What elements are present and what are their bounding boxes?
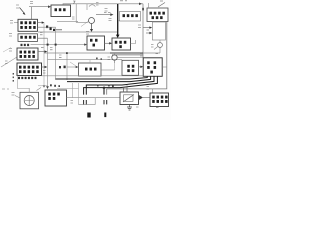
leader to label above speaker <box>37 88 42 91</box>
block 64 middle <box>79 63 102 76</box>
wire block 64 out right <box>101 69 115 71</box>
wires into block 94 top <box>124 86 128 93</box>
label 7 <box>73 1 76 4</box>
label 87 <box>147 29 150 31</box>
speaker block 18 <box>20 92 39 109</box>
wire vertical x44 <box>43 23 45 86</box>
label 96 <box>156 107 159 109</box>
wire y76 long under control <box>42 75 144 77</box>
wire arrow to IF line <box>96 14 111 16</box>
wire branch down at 87 <box>86 4 88 10</box>
wire y85.8 short <box>38 85 48 87</box>
label 30 <box>16 5 19 8</box>
block 7 oscillator <box>51 5 71 17</box>
block 16 <box>17 48 38 60</box>
caption glyphs under block 17 <box>18 77 20 79</box>
antenna input diagonal <box>1 57 17 67</box>
dotted line left of block 17 <box>13 73 14 82</box>
label 19 <box>120 0 127 2</box>
wire x67 vertical <box>66 53 68 80</box>
bus pin 1 <box>56 76 148 79</box>
wire y21 from delay <box>57 21 78 22</box>
block 96 power <box>150 93 169 107</box>
wire x95.2 stub <box>94 98 96 105</box>
bus pin 2 <box>67 76 151 81</box>
label 95 <box>147 87 150 90</box>
block 10 top right <box>147 8 168 22</box>
connector bars group B below line <box>104 100 107 104</box>
wire stub above block 10 <box>148 3 150 8</box>
wire right vertical x143 <box>142 4 144 58</box>
bus label marks <box>97 85 114 87</box>
wire amp out long <box>67 97 121 99</box>
wire thick vertical <box>117 4 119 35</box>
wire decoder out hook <box>131 40 136 44</box>
wire node 21 vertical to tuner <box>31 7 33 20</box>
label 24 <box>109 19 112 21</box>
wire y29.8 stub <box>56 29 63 31</box>
label 85 <box>138 25 141 28</box>
wire arrow into block 64 <box>67 66 76 68</box>
connector bars group A below line <box>84 100 87 104</box>
wire into mixer <box>76 4 88 23</box>
label 86 with leader <box>158 3 165 8</box>
label 60 glyphs under block13 <box>21 44 23 46</box>
wire y20.5 right of vertical <box>118 20 137 22</box>
node circle below block 87 <box>158 43 163 48</box>
connector bar B left <box>103 88 105 95</box>
mixer circle node <box>89 18 95 24</box>
block 13 <box>18 34 38 42</box>
right edge vertical loop <box>107 22 167 95</box>
label 26 <box>86 32 89 35</box>
label 40 cluster <box>46 26 55 32</box>
block 26 demod <box>87 36 105 50</box>
block 12 tuner <box>18 19 38 31</box>
wire demod to decoder <box>105 42 111 44</box>
wire y44.3 long to demod <box>31 44 86 46</box>
block 9 text box <box>120 12 141 22</box>
label 76 <box>140 54 143 57</box>
ground symbol <box>129 105 131 108</box>
wire tuner out 1 <box>38 22 43 24</box>
label 64 <box>43 71 46 74</box>
wire horizontal y32 <box>38 31 117 33</box>
block 19 audio amp <box>45 90 67 106</box>
wire stub into block 64 top <box>89 60 91 63</box>
label 8 <box>96 3 99 6</box>
label 13 <box>9 34 12 37</box>
label 21 <box>30 2 33 4</box>
small dashes near IF <box>104 12 111 14</box>
wire into block 7 <box>29 6 49 8</box>
bus pin 4 <box>84 76 158 94</box>
block 27 decoder <box>112 38 131 50</box>
label 12 <box>10 21 13 24</box>
label 18 <box>12 93 15 96</box>
label 25 27 marks <box>59 66 66 69</box>
block 87 tall box <box>152 22 165 40</box>
label 29 <box>151 45 154 48</box>
label 81 <box>72 17 75 19</box>
block 94 deflection <box>120 92 139 105</box>
label 75 <box>108 57 111 60</box>
wire y104.6 lower <box>79 104 96 106</box>
wire y53 long <box>44 52 160 54</box>
wire block13 out <box>38 37 48 39</box>
wire block17 out arrow <box>42 66 46 68</box>
label 17 <box>5 61 8 64</box>
small marks above block 64 <box>96 58 102 60</box>
block 77 CRT driver <box>143 58 162 77</box>
wire OSD to driver arrow <box>139 66 142 68</box>
wire mixer down arrow <box>91 24 93 30</box>
wire mixer2 to vdp <box>117 57 143 59</box>
arrow out of block 94 <box>139 95 143 100</box>
label 19b <box>71 101 74 104</box>
label 31 32 marks <box>50 84 60 87</box>
label 23 <box>50 48 53 50</box>
wire block16 out <box>38 51 46 53</box>
wire y55 short dark pair <box>112 54 143 56</box>
wire tuner out 2 to bus <box>38 26 56 28</box>
wire y53 dark segment <box>110 52 143 54</box>
wire from control down <box>18 76 30 89</box>
figure caption mark <box>87 113 106 118</box>
block 17 system control <box>17 63 42 76</box>
label 15 <box>40 33 43 35</box>
wire hop arc <box>89 5 95 7</box>
label 16 <box>9 49 12 52</box>
label 61 <box>41 47 44 49</box>
wire arrows into block 87 <box>143 27 150 29</box>
wire x72.3 vertical <box>71 83 73 98</box>
wire vertical x47.5 <box>47 38 49 86</box>
wire y88.6 short <box>57 88 79 90</box>
arrowhead on connector bar B <box>103 86 106 89</box>
label 14 <box>105 9 108 12</box>
wire arrow from label 30 <box>20 8 25 14</box>
wire vdp right link <box>162 66 167 68</box>
bottom left small marks <box>2 88 9 90</box>
junction dots <box>47 44 49 46</box>
wire vertical x55.5 <box>55 27 57 80</box>
block 75 OSD <box>122 60 139 75</box>
wire x78.5 vertical <box>78 83 80 105</box>
wire into speaker top <box>28 88 30 92</box>
label 94 <box>136 105 139 108</box>
wire y59.7 long to OSD <box>48 59 123 61</box>
mixer circle 2 <box>112 55 117 60</box>
wire top bus <box>63 4 143 5</box>
label 77 <box>156 53 159 55</box>
speaker circle <box>24 96 34 106</box>
bus pin 3 <box>86 76 154 94</box>
label 24b <box>59 55 62 57</box>
